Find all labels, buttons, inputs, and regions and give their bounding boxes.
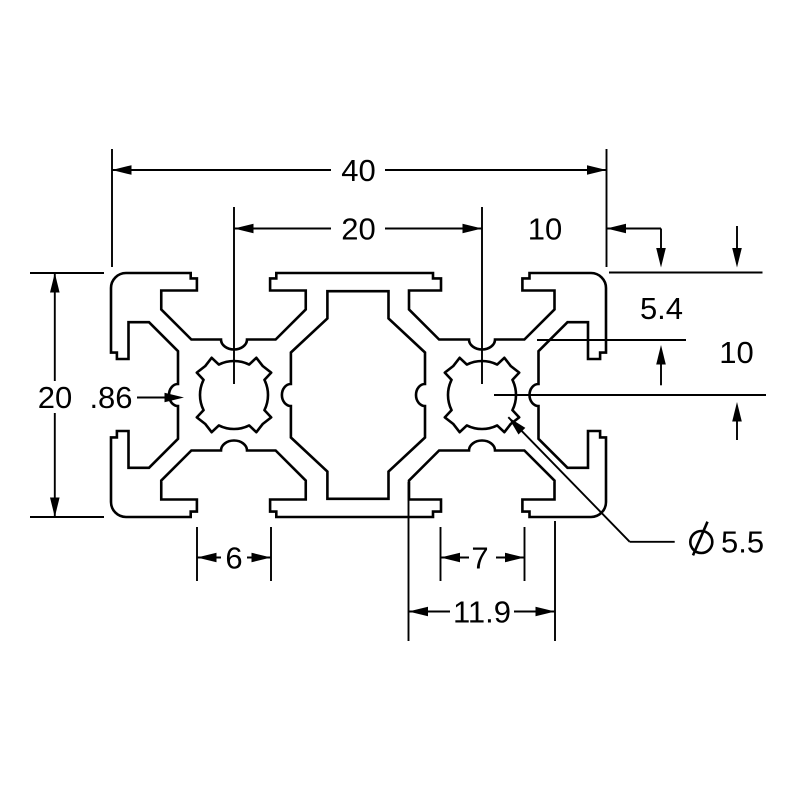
svg-text:20: 20 bbox=[341, 212, 375, 247]
svg-text:10: 10 bbox=[719, 335, 753, 370]
svg-text:11.9: 11.9 bbox=[453, 595, 511, 630]
svg-text:7: 7 bbox=[471, 541, 488, 576]
svg-text:5.4: 5.4 bbox=[640, 291, 683, 326]
svg-text:6: 6 bbox=[225, 541, 242, 576]
svg-text:5.5: 5.5 bbox=[721, 525, 764, 560]
svg-text:.86: .86 bbox=[89, 380, 132, 415]
svg-text:10: 10 bbox=[528, 212, 562, 247]
svg-text:40: 40 bbox=[341, 153, 375, 188]
svg-text:20: 20 bbox=[38, 380, 72, 415]
